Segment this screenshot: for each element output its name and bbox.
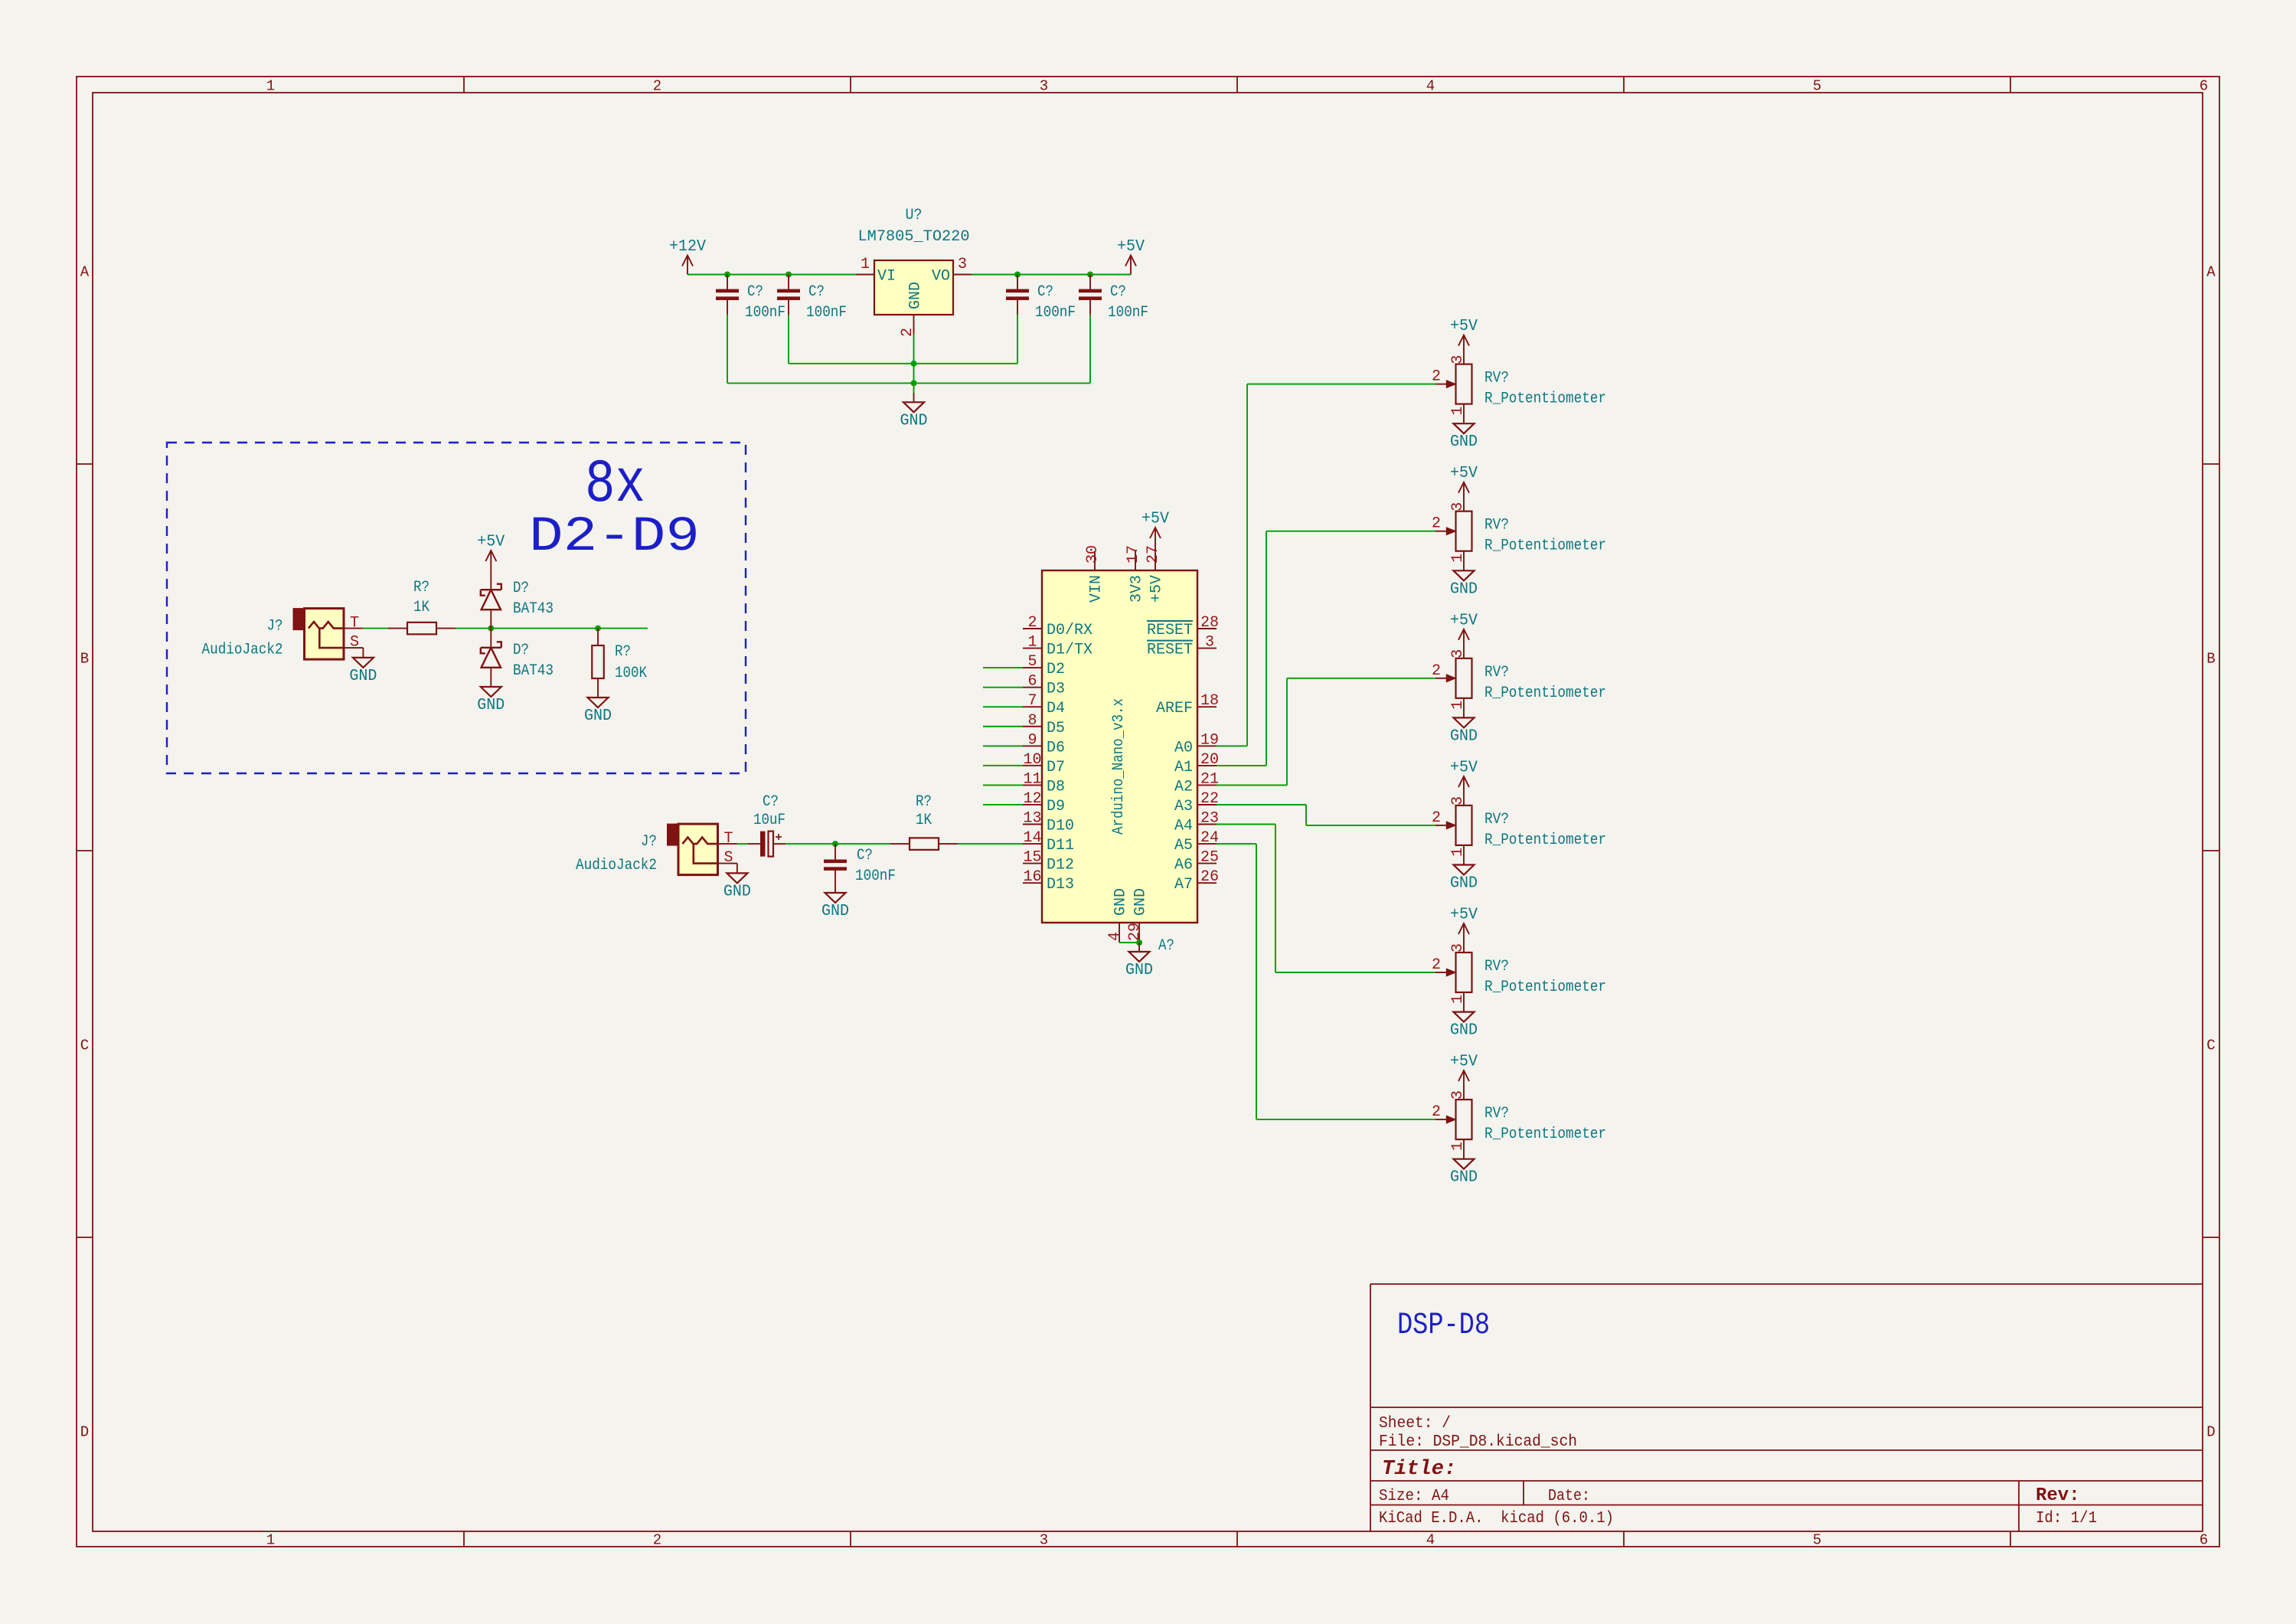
svg-text:2: 2 [1432, 1103, 1441, 1121]
svg-text:C?: C? [808, 283, 825, 301]
svg-text:R_Potentiometer: R_Potentiometer [1484, 979, 1606, 996]
svg-text:3: 3 [1040, 78, 1048, 95]
svg-text:C?: C? [857, 847, 873, 864]
svg-text:A5: A5 [1174, 837, 1193, 854]
svg-text:VI: VI [877, 268, 896, 286]
svg-text:A2: A2 [1174, 778, 1193, 796]
svg-text:R?: R? [413, 579, 429, 596]
svg-text:6: 6 [1027, 673, 1037, 691]
svg-text:1: 1 [1449, 554, 1467, 563]
svg-text:A?: A? [1158, 937, 1174, 955]
svg-text:Sheet: /: Sheet: / [1379, 1415, 1451, 1433]
svg-text:+5V: +5V [1148, 575, 1165, 603]
svg-text:1: 1 [1027, 634, 1037, 652]
svg-text:1: 1 [1449, 995, 1467, 1004]
svg-text:A4: A4 [1174, 818, 1193, 835]
svg-text:D3: D3 [1047, 681, 1065, 698]
svg-text:R_Potentiometer: R_Potentiometer [1484, 685, 1606, 702]
svg-text:GND: GND [907, 282, 925, 309]
svg-text:D: D [80, 1424, 89, 1441]
svg-text:A3: A3 [1174, 798, 1193, 815]
svg-text:+5V: +5V [1450, 759, 1478, 776]
svg-text:20: 20 [1200, 751, 1219, 769]
svg-text:BAT43: BAT43 [513, 600, 554, 618]
svg-text:RV?: RV? [1484, 664, 1509, 681]
svg-text:Date:: Date: [1548, 1488, 1590, 1505]
svg-text:1: 1 [1449, 701, 1467, 710]
svg-text:A6: A6 [1174, 857, 1193, 874]
svg-text:27: 27 [1145, 545, 1162, 564]
svg-text:BAT43: BAT43 [513, 662, 554, 680]
svg-text:100nF: 100nF [1035, 304, 1076, 322]
svg-text:1: 1 [1449, 1142, 1467, 1151]
svg-text:RV?: RV? [1484, 370, 1509, 387]
svg-text:D?: D? [513, 580, 529, 597]
svg-text:KiCad E.D.A. kicad (6.0.1): KiCad E.D.A. kicad (6.0.1) [1379, 1510, 1614, 1528]
svg-text:+5V: +5V [1450, 1054, 1478, 1071]
svg-text:+5V: +5V [1117, 238, 1145, 256]
svg-text:1: 1 [1449, 407, 1467, 416]
svg-text:4: 4 [1426, 1532, 1435, 1549]
svg-text:19: 19 [1200, 731, 1219, 749]
svg-text:3: 3 [1449, 796, 1467, 805]
svg-text:GND: GND [349, 668, 377, 685]
svg-text:S: S [724, 849, 733, 867]
svg-text:RESET: RESET [1147, 622, 1193, 639]
svg-text:1: 1 [266, 78, 275, 95]
svg-text:3: 3 [1449, 502, 1467, 511]
svg-text:1: 1 [266, 1532, 275, 1549]
svg-text:B: B [80, 651, 89, 668]
svg-text:16: 16 [1023, 868, 1041, 886]
svg-text:2: 2 [653, 1532, 661, 1549]
svg-text:10uF: 10uF [753, 812, 785, 829]
svg-text:D9: D9 [1047, 798, 1065, 815]
svg-text:2: 2 [1432, 368, 1441, 386]
svg-text:C: C [80, 1037, 89, 1054]
svg-text:15: 15 [1023, 849, 1041, 867]
svg-text:100nF: 100nF [1108, 304, 1148, 322]
svg-text:D8: D8 [1047, 778, 1065, 796]
svg-text:J?: J? [641, 833, 657, 851]
svg-text:+5V: +5V [1450, 465, 1478, 482]
svg-text:26: 26 [1200, 868, 1219, 886]
svg-text:30: 30 [1084, 545, 1102, 564]
svg-text:GND: GND [1450, 1022, 1478, 1040]
svg-text:DSP-D8: DSP-D8 [1397, 1309, 1490, 1343]
svg-text:C?: C? [1110, 283, 1126, 301]
svg-text:C?: C? [747, 283, 763, 301]
svg-text:17: 17 [1125, 545, 1142, 564]
svg-text:6: 6 [2200, 1532, 2208, 1549]
svg-text:5: 5 [1813, 78, 1821, 95]
svg-text:+12V: +12V [669, 238, 706, 256]
svg-text:D11: D11 [1047, 837, 1074, 854]
svg-text:R?: R? [615, 643, 631, 661]
svg-text:D2-D9: D2-D9 [529, 510, 700, 565]
svg-text:D7: D7 [1047, 759, 1065, 776]
svg-text:D: D [2206, 1424, 2215, 1441]
svg-text:2: 2 [1432, 956, 1441, 974]
svg-text:14: 14 [1023, 829, 1041, 847]
svg-text:3: 3 [1449, 943, 1467, 953]
svg-text:GND: GND [1125, 962, 1153, 979]
svg-text:GND: GND [1112, 888, 1129, 916]
svg-text:B: B [2206, 651, 2215, 668]
svg-text:4: 4 [1426, 78, 1435, 95]
svg-text:D13: D13 [1047, 876, 1074, 894]
svg-text:D4: D4 [1047, 700, 1065, 717]
svg-text:D12: D12 [1047, 857, 1074, 874]
svg-text:2: 2 [1432, 515, 1441, 533]
svg-text:8: 8 [1027, 712, 1037, 730]
svg-text:+5V: +5V [1450, 318, 1478, 335]
svg-text:100nF: 100nF [855, 868, 896, 885]
svg-text:VO: VO [932, 268, 950, 286]
svg-text:VIN: VIN [1087, 575, 1105, 603]
svg-text:3: 3 [1449, 649, 1467, 658]
svg-text:A7: A7 [1174, 876, 1193, 894]
svg-text:3: 3 [1449, 1090, 1467, 1100]
svg-text:25: 25 [1200, 849, 1219, 867]
svg-text:GND: GND [1450, 580, 1478, 598]
svg-text:A1: A1 [1174, 759, 1193, 776]
svg-text:1K: 1K [413, 599, 429, 616]
svg-text:J?: J? [267, 618, 283, 636]
svg-text:Arduino_Nano_v3.x: Arduino_Nano_v3.x [1110, 698, 1128, 835]
svg-text:5: 5 [1027, 653, 1037, 671]
svg-text:Title:: Title: [1382, 1458, 1456, 1481]
svg-text:D0/RX: D0/RX [1047, 622, 1092, 639]
svg-text:100K: 100K [615, 665, 647, 682]
svg-text:RV?: RV? [1484, 517, 1509, 534]
svg-text:C: C [2206, 1037, 2215, 1054]
svg-text:1K: 1K [916, 812, 932, 829]
svg-text:+5V: +5V [1450, 612, 1478, 629]
svg-text:+5V: +5V [1450, 907, 1478, 924]
svg-text:1: 1 [1449, 848, 1467, 857]
svg-text:+5V: +5V [477, 534, 505, 551]
svg-text:R?: R? [916, 793, 932, 811]
svg-text:R_Potentiometer: R_Potentiometer [1484, 1126, 1606, 1143]
svg-text:AudioJack2: AudioJack2 [576, 857, 657, 874]
svg-text:R_Potentiometer: R_Potentiometer [1484, 832, 1606, 849]
svg-text:GND: GND [1132, 888, 1149, 916]
svg-text:2: 2 [1027, 614, 1037, 632]
svg-text:GND: GND [584, 707, 612, 725]
svg-text:C?: C? [1037, 283, 1053, 301]
svg-text:GND: GND [1450, 433, 1478, 451]
svg-text:T: T [350, 615, 359, 632]
svg-text:2: 2 [1432, 809, 1441, 827]
svg-text:4: 4 [1106, 932, 1124, 941]
svg-text:22: 22 [1200, 790, 1219, 808]
svg-text:29: 29 [1126, 923, 1144, 941]
svg-text:D5: D5 [1047, 720, 1065, 737]
svg-text:D?: D? [513, 642, 529, 659]
svg-text:R_Potentiometer: R_Potentiometer [1484, 390, 1606, 408]
svg-text:28: 28 [1200, 614, 1219, 632]
svg-text:Id: 1/1: Id: 1/1 [2036, 1510, 2097, 1528]
svg-text:GND: GND [900, 412, 928, 430]
svg-text:GND: GND [1450, 727, 1478, 745]
svg-text:10: 10 [1023, 751, 1041, 769]
svg-text:23: 23 [1200, 810, 1219, 828]
svg-text:LM7805_TO220: LM7805_TO220 [858, 228, 970, 246]
svg-text:Rev:: Rev: [2036, 1485, 2080, 1506]
svg-text:A0: A0 [1174, 739, 1193, 756]
svg-text:RV?: RV? [1484, 958, 1509, 975]
svg-text:U?: U? [906, 207, 923, 224]
svg-text:21: 21 [1200, 770, 1219, 788]
svg-text:+5V: +5V [1141, 511, 1169, 528]
svg-text:100nF: 100nF [806, 304, 847, 322]
svg-text:3: 3 [1205, 634, 1214, 652]
svg-text:GND: GND [1450, 875, 1478, 893]
svg-text:GND: GND [477, 697, 505, 714]
svg-text:3: 3 [1449, 355, 1467, 364]
svg-text:5: 5 [1813, 1532, 1821, 1549]
svg-text:Size: A4: Size: A4 [1379, 1488, 1449, 1505]
svg-text:AudioJack2: AudioJack2 [202, 642, 283, 659]
svg-text:D1/TX: D1/TX [1047, 642, 1092, 659]
svg-text:D10: D10 [1047, 818, 1074, 835]
svg-text:RV?: RV? [1484, 811, 1509, 828]
svg-text:A: A [80, 264, 90, 281]
svg-text:2: 2 [653, 78, 661, 95]
svg-text:T: T [724, 830, 733, 848]
svg-text:A: A [2206, 264, 2216, 281]
svg-text:9: 9 [1027, 731, 1037, 749]
svg-text:3: 3 [1040, 1532, 1048, 1549]
svg-text:D2: D2 [1047, 661, 1065, 678]
svg-text:11: 11 [1023, 770, 1041, 788]
svg-text:2: 2 [1432, 662, 1441, 680]
svg-text:1: 1 [861, 256, 870, 273]
svg-text:GND: GND [723, 883, 751, 900]
svg-text:100nF: 100nF [745, 304, 785, 322]
svg-text:18: 18 [1200, 692, 1219, 710]
svg-text:D6: D6 [1047, 739, 1065, 756]
svg-text:S: S [350, 634, 359, 652]
svg-text:6: 6 [2200, 78, 2208, 95]
svg-text:13: 13 [1023, 810, 1041, 828]
svg-text:GND: GND [821, 903, 849, 920]
svg-text:C?: C? [763, 793, 779, 811]
svg-text:RV?: RV? [1484, 1105, 1509, 1122]
svg-text:12: 12 [1023, 790, 1041, 808]
svg-text:R_Potentiometer: R_Potentiometer [1484, 538, 1606, 555]
svg-text:24: 24 [1200, 829, 1219, 847]
svg-text:AREF: AREF [1156, 700, 1193, 717]
svg-text:RESET: RESET [1147, 642, 1193, 659]
svg-text:3V3: 3V3 [1128, 575, 1145, 603]
svg-text:GND: GND [1450, 1169, 1478, 1187]
svg-text:3: 3 [958, 256, 967, 273]
svg-text:7: 7 [1027, 692, 1037, 710]
svg-text:File: DSP_D8.kicad_sch: File: DSP_D8.kicad_sch [1379, 1433, 1577, 1451]
